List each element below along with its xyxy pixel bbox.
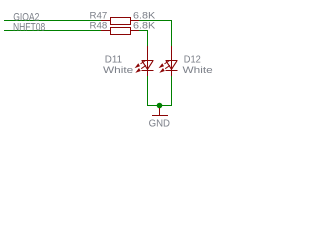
svg-text:6.8K: 6.8K [133, 20, 156, 31]
svg-text:R48: R48 [90, 20, 108, 31]
svg-text:White: White [103, 64, 133, 75]
svg-text:NHFT08: NHFT08 [13, 21, 45, 33]
svg-text:GND: GND [149, 119, 170, 130]
svg-text:White: White [183, 64, 213, 75]
